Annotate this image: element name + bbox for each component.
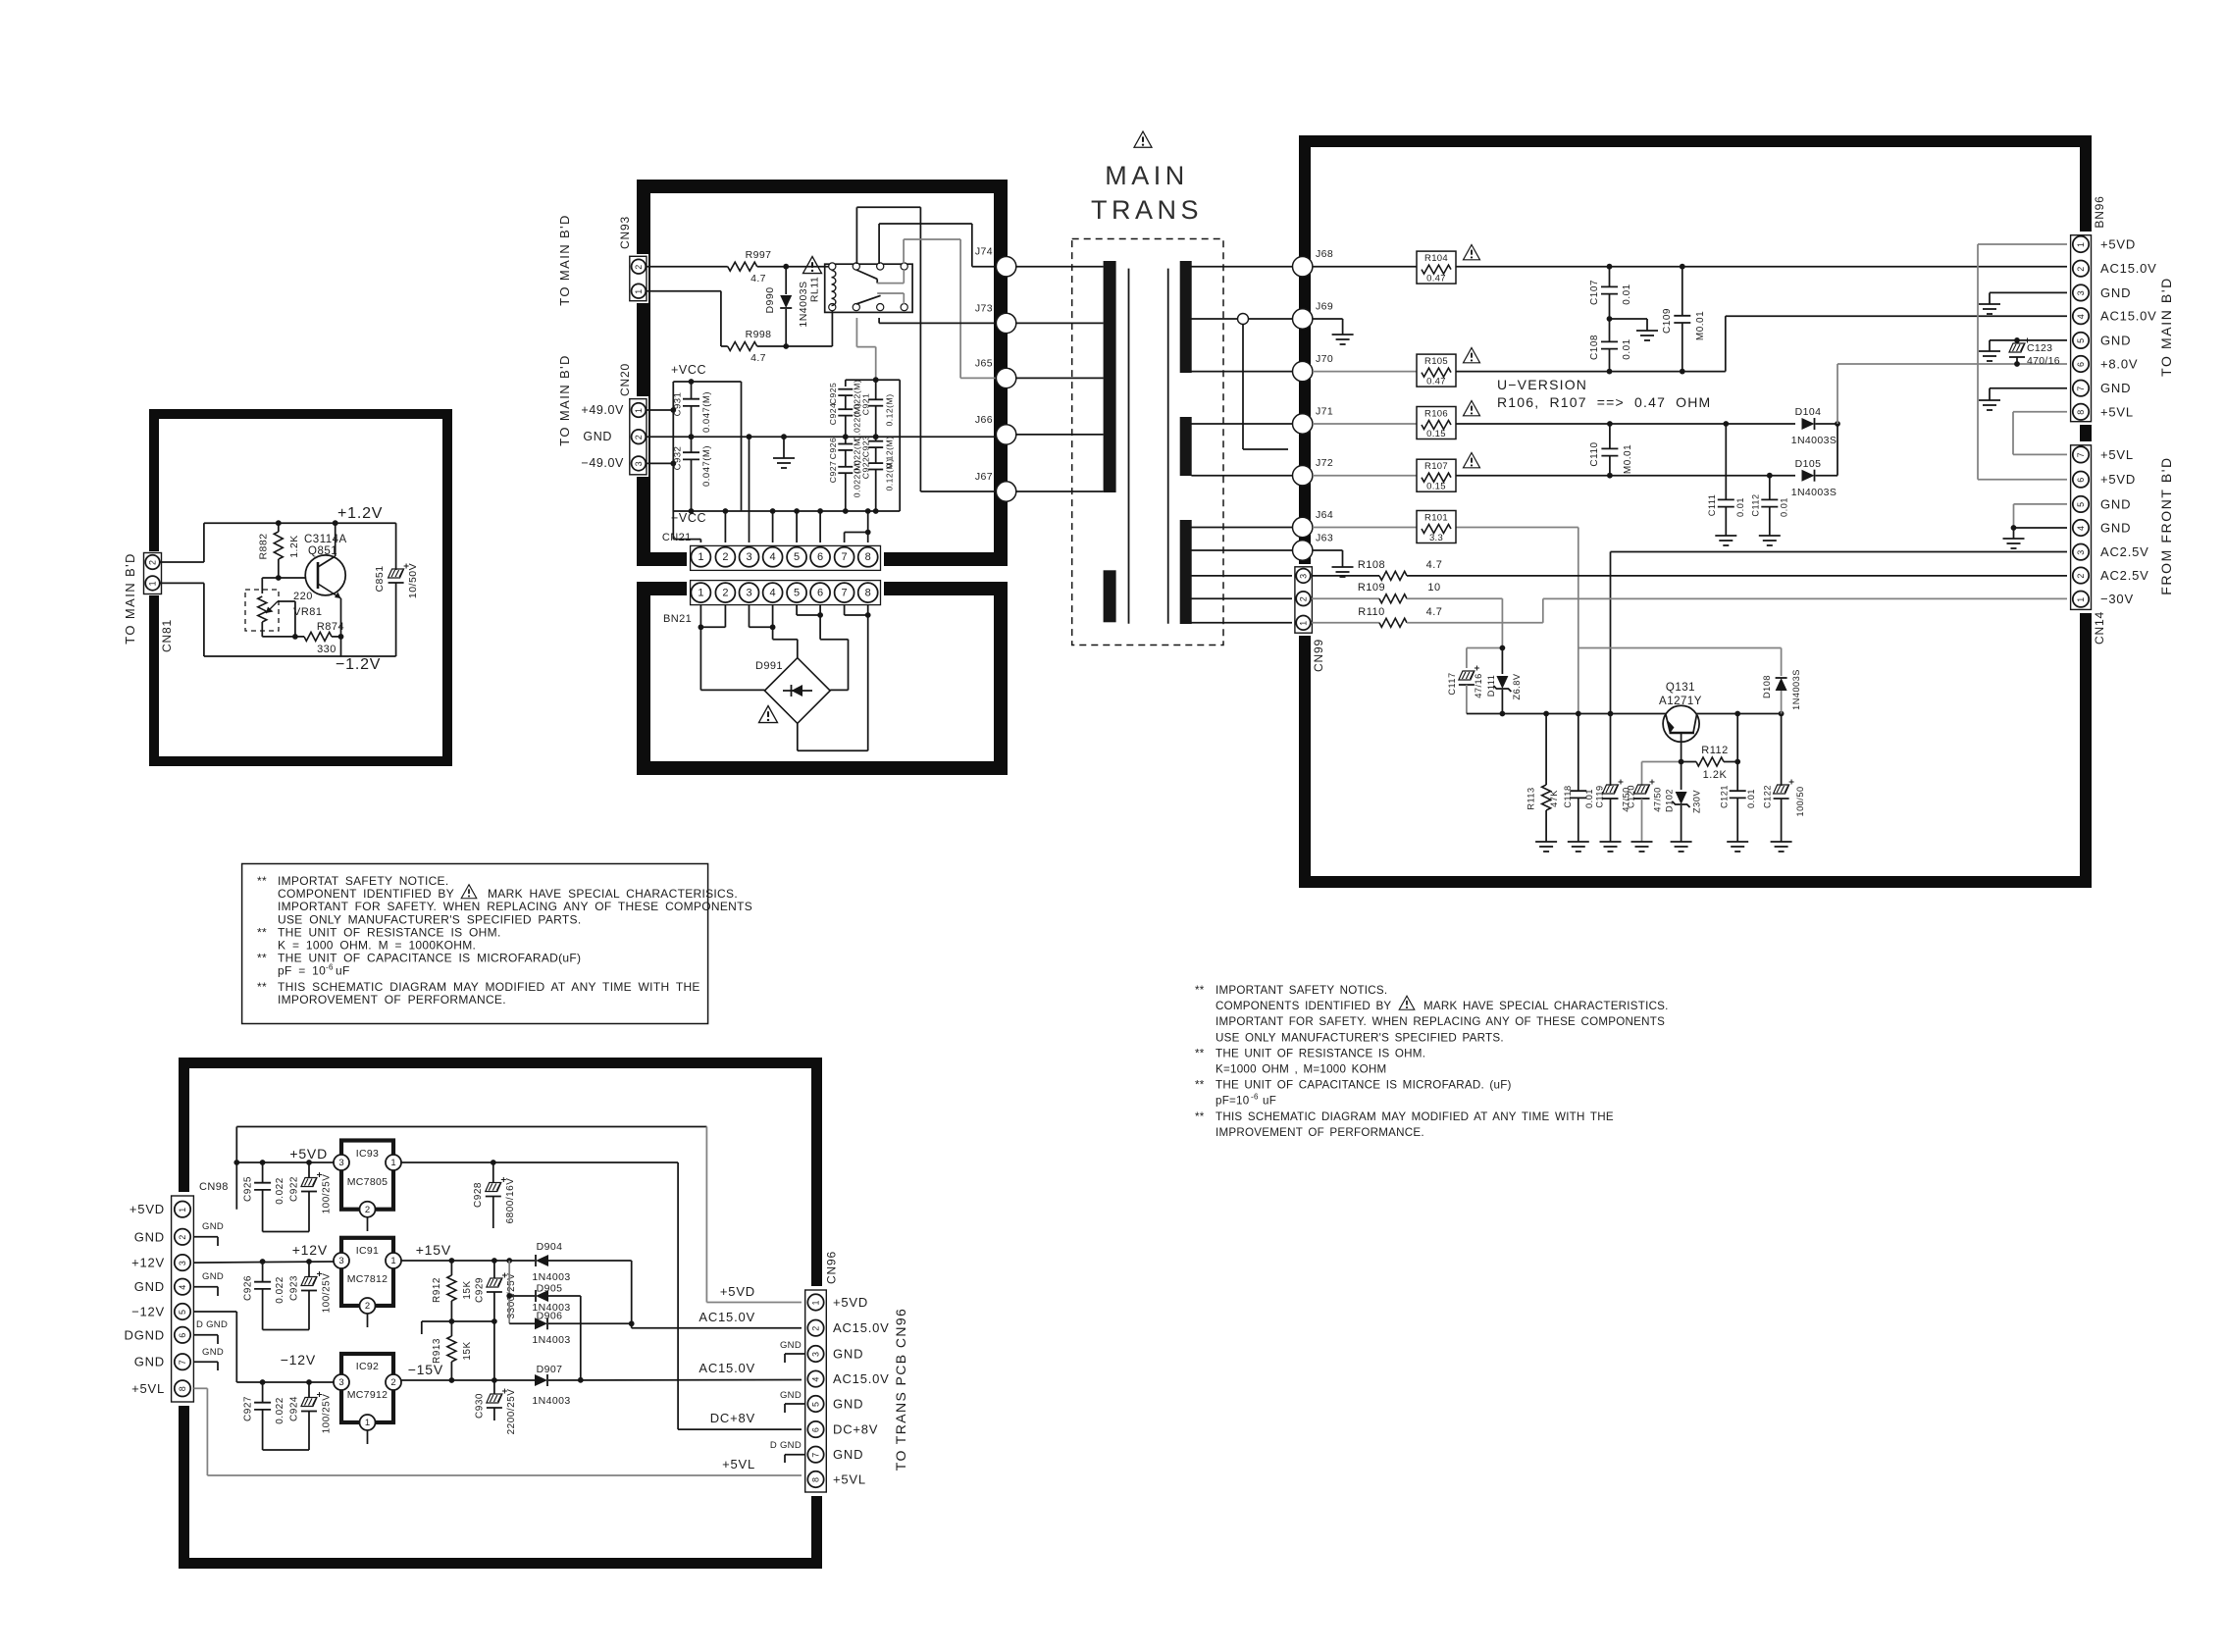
- label BN96 AC15.0V: [2100, 261, 2157, 276]
- svg-text:4.7: 4.7: [1426, 606, 1443, 618]
- label MAIN TRANS: [1091, 161, 1203, 225]
- svg-text:R874: R874: [317, 621, 344, 633]
- svg-text:R106, R107 ==> 0.47 OHM: R106, R107 ==> 0.47 OHM: [1497, 394, 1711, 410]
- ground (R113): [1535, 842, 1557, 852]
- svg-text:**: **: [257, 952, 267, 965]
- wire rail to CN21 pin5: [796, 511, 798, 546]
- svg-text:7: 7: [2076, 387, 2086, 391]
- svg-text:R110: R110: [1358, 606, 1384, 618]
- svg-text:6: 6: [817, 551, 823, 563]
- svg-text:8: 8: [865, 551, 871, 563]
- svg-text:AC15.0V: AC15.0V: [833, 1320, 890, 1335]
- svg-text:GND: GND: [134, 1355, 165, 1369]
- label CN98: [199, 1181, 229, 1193]
- svg-text:GND: GND: [2100, 521, 2131, 536]
- capacitor C931 0.047(M): [673, 379, 713, 439]
- svg-text:+49.0V: +49.0V: [581, 403, 624, 417]
- wire relay pin2-top to J67: [856, 207, 996, 491]
- ground (BN96 pin7): [1979, 400, 2000, 410]
- wire IC93 input line: [236, 1160, 334, 1165]
- svg-text:7: 7: [2076, 452, 2086, 457]
- label CN14: [2093, 611, 2106, 645]
- warning mark (R105): [1464, 348, 1480, 363]
- svg-text:1: 1: [811, 1300, 821, 1305]
- svg-text:6: 6: [178, 1333, 187, 1338]
- svg-text:2: 2: [811, 1326, 821, 1331]
- svg-text:THE UNIT OF RESISTANCE IS OHM.: THE UNIT OF RESISTANCE IS OHM.: [1216, 1047, 1425, 1059]
- wire BN96 pin7 GND: [1990, 388, 2072, 400]
- svg-text:J70: J70: [1316, 353, 1333, 365]
- wire +5VD top rail: [233, 1127, 706, 1210]
- connector CN99: [1292, 564, 1315, 636]
- connector CN14: [2067, 441, 2094, 613]
- svg-text:C923: C923: [861, 436, 871, 458]
- svg-text:+12V: +12V: [131, 1256, 165, 1270]
- svg-text:GND: GND: [202, 1221, 224, 1232]
- svg-text:2: 2: [722, 587, 728, 598]
- svg-text:RL11: RL11: [809, 277, 821, 302]
- svg-text:AC15.0V: AC15.0V: [699, 1310, 755, 1324]
- svg-text:-6: -6: [326, 963, 334, 972]
- svg-text:2: 2: [722, 551, 728, 563]
- connector BN96: [2067, 232, 2094, 425]
- svg-text:3: 3: [338, 1377, 343, 1388]
- wire D905 branch: [506, 1261, 535, 1323]
- ground (C107/C108): [1636, 331, 1658, 340]
- wire R101 output to D108: [1578, 647, 1782, 649]
- svg-text:3: 3: [746, 587, 751, 598]
- wire +1.2V top rail: [204, 522, 396, 524]
- transformer secondary bar 3: [1180, 520, 1192, 624]
- svg-text:D102: D102: [1665, 789, 1675, 812]
- svg-text:COMPONENT IDENTIFIED BY: COMPONENT IDENTIFIED BY: [278, 887, 454, 901]
- svg-text:C923: C923: [289, 1275, 300, 1301]
- label CN98 +5VL: [131, 1381, 165, 1396]
- svg-text:4: 4: [178, 1285, 187, 1290]
- wire -30V bus: [1467, 711, 1785, 717]
- zener diode D111 Z6.8V: [1486, 648, 1522, 714]
- diode D904 1N4003: [532, 1241, 631, 1283]
- svg-text:AC15.0V: AC15.0V: [2100, 309, 2157, 324]
- svg-text:−49.0V: −49.0V: [581, 456, 624, 470]
- svg-text:R912: R912: [432, 1277, 442, 1303]
- diode D907 1N4003: [532, 1364, 570, 1407]
- svg-text:DC+8V: DC+8V: [833, 1422, 878, 1437]
- label CN96 DC+8V: [833, 1422, 878, 1437]
- wire R997 to relay coil: [757, 264, 833, 270]
- wire CN93 pin1 down: [647, 291, 728, 346]
- regulator IC92 MC7912: [334, 1354, 401, 1444]
- resistor R110 4.7: [1312, 598, 1543, 627]
- svg-text:6: 6: [2076, 362, 2086, 367]
- wire relay pin3-top to J74: [879, 224, 996, 267]
- svg-text:R112: R112: [1701, 745, 1728, 756]
- connector CN20: [627, 396, 648, 477]
- capacitor C924 100/25V: [263, 1382, 333, 1450]
- svg-text:MC7805: MC7805: [347, 1176, 388, 1188]
- svg-text:+5VD: +5VD: [720, 1284, 755, 1299]
- node J74: [975, 246, 1016, 277]
- svg-text:3: 3: [2076, 290, 2086, 295]
- regulator IC91 MC7812: [334, 1238, 401, 1327]
- svg-text:C122: C122: [1763, 785, 1773, 808]
- svg-text:7: 7: [842, 551, 848, 563]
- svg-text:**: **: [257, 980, 267, 994]
- capacitor C926 0.022: [243, 1262, 286, 1330]
- svg-text:J66: J66: [975, 414, 993, 426]
- ground (box B GND rail): [773, 437, 795, 468]
- svg-text:2: 2: [634, 435, 644, 439]
- label BN96: [2093, 195, 2106, 228]
- svg-text:IMPORTANT FOR SAFETY. WHEN REP: IMPORTANT FOR SAFETY. WHEN REPLACING ANY…: [278, 900, 752, 913]
- board box C outline (BN21 bridge board): [644, 589, 1001, 768]
- svg-text:+12V: +12V: [292, 1242, 328, 1258]
- ground (D102): [1671, 842, 1692, 852]
- svg-text:5: 5: [794, 587, 800, 598]
- svg-text:1: 1: [148, 581, 158, 586]
- svg-text:15K: 15K: [462, 1341, 473, 1360]
- ground (CN14 pins4-5): [2003, 539, 2025, 548]
- svg-text:2200/25V: 2200/25V: [506, 1389, 517, 1435]
- capacitor C928 6800/16V: [473, 1162, 516, 1228]
- svg-text:C926: C926: [828, 438, 838, 460]
- diode D906 1N4003: [509, 1311, 632, 1347]
- wire IC93 output line: [401, 1160, 678, 1165]
- svg-text:AC2.5V: AC2.5V: [2100, 568, 2149, 583]
- transistor Q131 A1271Y: [1659, 682, 1702, 762]
- svg-text:MAIN: MAIN: [1105, 161, 1189, 190]
- svg-text:GND: GND: [833, 1397, 863, 1412]
- ground (BN96 pin5): [1979, 351, 2000, 361]
- wire -VCC bottom rail: [673, 508, 900, 514]
- svg-text:D GND: D GND: [196, 1319, 228, 1330]
- svg-text:THIS SCHEMATIC DIAGRAM MAY MOD: THIS SCHEMATIC DIAGRAM MAY MODIFIED AT A…: [278, 980, 700, 994]
- node J63: [1293, 533, 1334, 561]
- svg-text:DC+8V: DC+8V: [710, 1411, 755, 1425]
- svg-text:C922: C922: [861, 457, 871, 480]
- capacitor C923 0.12(M): [861, 436, 895, 469]
- svg-text:1N4003S: 1N4003S: [1791, 435, 1837, 446]
- svg-text:+5VD: +5VD: [2100, 472, 2136, 487]
- label FROM FRONT B'D (CN14): [2158, 456, 2174, 594]
- wire secondary to CN99 pin2: [1191, 597, 1295, 599]
- wire R998 to relay coil bottom: [757, 311, 833, 349]
- svg-text:1: 1: [2076, 597, 2086, 602]
- svg-text:CN81: CN81: [160, 619, 174, 652]
- wire -1.2V bottom rail: [204, 655, 396, 657]
- svg-text:CN21: CN21: [662, 532, 692, 543]
- label TO MAIN B'D (left of CN81): [123, 552, 137, 644]
- capacitor C925 0.022(M): [828, 380, 862, 417]
- label GND bracket CN96 pin3: [780, 1340, 805, 1363]
- label GND bracket CN98 pin4: [193, 1271, 224, 1296]
- svg-text:5: 5: [178, 1310, 187, 1315]
- svg-text:47/50: 47/50: [1653, 787, 1663, 812]
- label CN96 GND: [833, 1447, 863, 1462]
- label +1.2V: [337, 505, 383, 522]
- svg-text:6: 6: [811, 1427, 821, 1432]
- label BN96 GND: [2100, 285, 2131, 300]
- capacitor C122 100/50: [1763, 714, 1806, 843]
- wire J65 to primary: [1016, 377, 1104, 379]
- svg-text:GND: GND: [833, 1447, 863, 1462]
- label -49.0V: [581, 456, 624, 470]
- capacitor C112 0.01: [1751, 476, 1789, 536]
- svg-text:4: 4: [811, 1377, 821, 1382]
- label CN93: [618, 216, 632, 249]
- svg-text:MARK HAVE SPECIAL CHARACTERIST: MARK HAVE SPECIAL CHARACTERISTICS.: [1423, 1000, 1669, 1012]
- wire C107/C108 node to ground: [1610, 319, 1648, 331]
- svg-text:GND: GND: [2100, 381, 2131, 395]
- svg-text:100/50: 100/50: [1795, 786, 1805, 816]
- svg-text:TO TRANS PCB CN96: TO TRANS PCB CN96: [893, 1308, 908, 1471]
- svg-text:J71: J71: [1316, 406, 1333, 418]
- label BN96 AC15.0V: [2100, 309, 2157, 324]
- svg-text:+5VL: +5VL: [2100, 404, 2134, 419]
- svg-text:0.47: 0.47: [1426, 274, 1446, 284]
- svg-text:C121: C121: [1720, 785, 1730, 808]
- wire rail to CN21 pin6: [819, 511, 821, 546]
- svg-text:R106: R106: [1424, 409, 1448, 420]
- capacitor C118 0.01: [1563, 714, 1594, 843]
- svg-text:C924: C924: [828, 403, 838, 426]
- wire BN96 pin1 +5VD to CN14 pin6: [1978, 244, 2072, 480]
- svg-text:DGND: DGND: [125, 1327, 165, 1342]
- svg-text:AC15.0V: AC15.0V: [833, 1371, 890, 1386]
- board box A outline (CN81 regulator board): [154, 414, 447, 761]
- svg-text:J64: J64: [1316, 509, 1333, 521]
- label CN96 GND: [833, 1347, 863, 1362]
- svg-text:AC2.5V: AC2.5V: [2100, 544, 2149, 559]
- label +49.0V: [581, 403, 624, 417]
- svg-text:D904: D904: [537, 1241, 563, 1253]
- capacitor C927 0.022(M): [828, 460, 862, 514]
- svg-text:K=1000 OHM , M=1000 KOHM: K=1000 OHM , M=1000 KOHM: [1216, 1063, 1386, 1076]
- svg-text:BN96: BN96: [2093, 195, 2106, 228]
- ground (J69): [1332, 335, 1354, 344]
- ground (C122): [1771, 842, 1792, 852]
- wire divider mid line: [422, 1318, 497, 1334]
- capacitor C120 47/50: [1627, 762, 1682, 843]
- svg-text:C120: C120: [1627, 785, 1636, 808]
- svg-text:47/16: 47/16: [1474, 673, 1483, 698]
- svg-text:3.3: 3.3: [1429, 533, 1443, 543]
- wire J67 to primary: [1016, 490, 1104, 492]
- svg-text:THIS SCHEMATIC DIAGRAM MAY MOD: THIS SCHEMATIC DIAGRAM MAY MODIFIED AT A…: [1216, 1110, 1614, 1123]
- connector BN21: [687, 577, 884, 606]
- label CN98 DGND: [125, 1327, 165, 1342]
- node J68: [1293, 248, 1334, 277]
- svg-text:4: 4: [2076, 314, 2086, 319]
- svg-text:GND: GND: [134, 1279, 165, 1294]
- svg-text:GND: GND: [780, 1340, 802, 1351]
- capacitor C108 0.01: [1589, 316, 1632, 372]
- svg-text:0.15: 0.15: [1426, 482, 1446, 492]
- wire CN81 pin2 to node: [160, 561, 204, 563]
- svg-text:C118: C118: [1563, 785, 1573, 807]
- svg-text:1: 1: [2076, 242, 2086, 247]
- label CN14 +5VD: [2100, 472, 2136, 487]
- svg-text:−VCC: −VCC: [671, 511, 706, 525]
- resistor R912 15K: [432, 1261, 473, 1321]
- label D GND bracket CN96 pin7: [770, 1440, 805, 1463]
- svg-text:C107: C107: [1589, 280, 1600, 305]
- svg-text:8: 8: [865, 587, 871, 598]
- svg-text:MC7912: MC7912: [347, 1389, 388, 1401]
- svg-text:D111: D111: [1486, 675, 1496, 697]
- warning mark (right notice): [1399, 996, 1415, 1009]
- label CN81: [160, 619, 174, 652]
- svg-text:4.7: 4.7: [750, 273, 766, 284]
- label -1.2V: [336, 656, 381, 673]
- wire J71 rail: [1313, 421, 1840, 427]
- label CN14 −30V: [2100, 592, 2134, 606]
- svg-text:1: 1: [1299, 621, 1309, 626]
- svg-text:C925: C925: [243, 1176, 254, 1202]
- svg-text:GND: GND: [833, 1347, 863, 1362]
- wire J70 rail (AC15.0V): [1313, 316, 2072, 374]
- svg-text:C921: C921: [861, 393, 871, 416]
- capacitor C107 0.01: [1589, 267, 1632, 319]
- svg-text:D GND: D GND: [770, 1440, 802, 1451]
- label +5VL (CN96 pin8 wire): [722, 1457, 755, 1471]
- svg-text:+5VL: +5VL: [722, 1457, 755, 1471]
- svg-text:1N4003: 1N4003: [532, 1271, 570, 1283]
- resistor R101 3.3: [1417, 511, 1456, 544]
- svg-text:R113: R113: [1526, 787, 1536, 809]
- svg-text:+5VD: +5VD: [129, 1202, 165, 1216]
- svg-text:5: 5: [2076, 338, 2086, 343]
- label -15V: [408, 1362, 443, 1377]
- svg-text:1: 1: [365, 1418, 370, 1428]
- capacitor C927 0.022: [243, 1382, 286, 1450]
- connector CN98: [168, 1192, 197, 1406]
- label BN96 GND: [2100, 333, 2131, 347]
- svg-text:0.12(M): 0.12(M): [885, 393, 895, 426]
- wire base line Q851: [262, 577, 318, 579]
- resistor R107 0.15: [1417, 459, 1456, 492]
- svg-text:0.022: 0.022: [275, 1397, 285, 1424]
- wire secondary to J68: [1191, 266, 1292, 268]
- svg-text:C119: C119: [1595, 785, 1605, 807]
- connector CN96: [802, 1286, 830, 1496]
- svg-text:C110: C110: [1589, 441, 1600, 466]
- wire GND rail to CN21 pin3: [749, 437, 750, 546]
- resistor R913 15K: [432, 1321, 473, 1383]
- svg-text:C117: C117: [1447, 672, 1457, 695]
- capacitor C922 100/25V: [263, 1162, 333, 1232]
- svg-text:C851: C851: [374, 565, 386, 592]
- svg-text:+1.2V: +1.2V: [337, 505, 383, 522]
- svg-text:D990: D990: [764, 286, 776, 313]
- capacitor C109 M0.01: [1662, 267, 1706, 372]
- wire -15V rail to CN96 pin4: [401, 1377, 805, 1383]
- connector CN81: [142, 551, 163, 595]
- svg-text:J73: J73: [975, 302, 993, 314]
- node J65: [975, 357, 1016, 387]
- svg-text:J72: J72: [1316, 457, 1333, 469]
- label +VCC: [671, 363, 706, 377]
- svg-text:TO MAIN B'D: TO MAIN B'D: [2158, 277, 2174, 377]
- svg-text:+8.0V: +8.0V: [2100, 357, 2138, 372]
- svg-text:IC93: IC93: [356, 1148, 379, 1160]
- svg-text:−30V: −30V: [2100, 592, 2134, 606]
- label TO MAIN B'D (CN20): [557, 354, 572, 445]
- ground (C112): [1759, 536, 1781, 545]
- svg-text:IMPORTANT SAFETY NOTICS.: IMPORTANT SAFETY NOTICS.: [1216, 984, 1387, 997]
- resistor R112 1.2K: [1679, 745, 1740, 781]
- wire BN96 pin5 GND: [1990, 337, 2072, 351]
- wire BN96 pin3 GND: [1990, 292, 2072, 304]
- svg-text:C922: C922: [289, 1176, 300, 1202]
- svg-text:0.01: 0.01: [1746, 789, 1756, 808]
- svg-text:C109: C109: [1662, 308, 1673, 334]
- svg-text:GND: GND: [134, 1229, 165, 1244]
- diode D104 1N4003S: [1791, 406, 1837, 446]
- svg-text:pF = 10: pF = 10: [278, 964, 326, 978]
- svg-text:1.2K: 1.2K: [1703, 769, 1728, 781]
- warning mark (R106): [1464, 401, 1480, 416]
- board box B outline (CN93/CN20 board upper): [644, 186, 1001, 559]
- resistor R998 4.7: [728, 329, 772, 364]
- svg-text:0.01: 0.01: [1622, 284, 1632, 304]
- svg-text:K = 1000 OHM. M = 1000KOHM.: K = 1000 OHM. M = 1000KOHM.: [278, 939, 476, 953]
- svg-text:470/16: 470/16: [2027, 355, 2060, 367]
- svg-text:1: 1: [178, 1208, 187, 1213]
- svg-text:D991: D991: [755, 660, 783, 672]
- label CN14 GND: [2100, 496, 2131, 511]
- wire +5VD vertical to CN96 pin1: [706, 1127, 804, 1303]
- resistor R113 47K: [1526, 714, 1560, 843]
- svg-text:6: 6: [817, 587, 823, 598]
- svg-text:R882: R882: [258, 533, 270, 559]
- svg-text:10/50V: 10/50V: [407, 563, 419, 598]
- wire BN21 pins7-8 tie to bridge bottom: [798, 605, 871, 751]
- label CN96 +5VL: [833, 1472, 866, 1487]
- svg-text:C927: C927: [828, 461, 838, 484]
- board box E outline (regulator PCB): [184, 1063, 817, 1564]
- svg-text:**: **: [1195, 1047, 1205, 1059]
- svg-text:IMPOROVEMENT OF PERFORMANCE.: IMPOROVEMENT OF PERFORMANCE.: [278, 993, 506, 1007]
- svg-text:10: 10: [1427, 582, 1440, 594]
- capacitor C123 470/16: [2009, 338, 2060, 368]
- label +15V: [416, 1242, 451, 1258]
- svg-text:3: 3: [811, 1352, 821, 1357]
- svg-text:+5VD: +5VD: [2100, 237, 2136, 252]
- svg-text:A1271Y: A1271Y: [1659, 696, 1702, 707]
- connector CN93: [627, 254, 648, 303]
- svg-text:MC7812: MC7812: [347, 1273, 388, 1285]
- capacitor C111 0.01: [1707, 424, 1745, 536]
- node J71: [1293, 406, 1334, 435]
- svg-text:THE UNIT OF CAPACITANCE IS MIC: THE UNIT OF CAPACITANCE IS MICROFARAD. (…: [1216, 1079, 1512, 1092]
- svg-text:3: 3: [338, 1256, 343, 1266]
- svg-text:Z6.8V: Z6.8V: [1512, 673, 1522, 699]
- svg-text:THE UNIT OF RESISTANCE IS OHM.: THE UNIT OF RESISTANCE IS OHM.: [278, 925, 501, 939]
- svg-text:6: 6: [2076, 478, 2086, 483]
- capacitor C921 0.12(M): [861, 380, 895, 440]
- svg-text:uF: uF: [1263, 1095, 1276, 1108]
- svg-text:VR81: VR81: [293, 606, 323, 618]
- svg-text:C929: C929: [475, 1277, 486, 1303]
- wire AC2.5V upper (to CN14 pin3): [1611, 552, 2073, 714]
- transistor Q851 C3114A: [304, 520, 347, 656]
- svg-text:0.47: 0.47: [1426, 377, 1446, 387]
- svg-text:3: 3: [338, 1158, 343, 1168]
- svg-text:GND: GND: [780, 1390, 802, 1401]
- transformer dashed outline: [1072, 239, 1223, 645]
- svg-text:C928: C928: [473, 1182, 484, 1208]
